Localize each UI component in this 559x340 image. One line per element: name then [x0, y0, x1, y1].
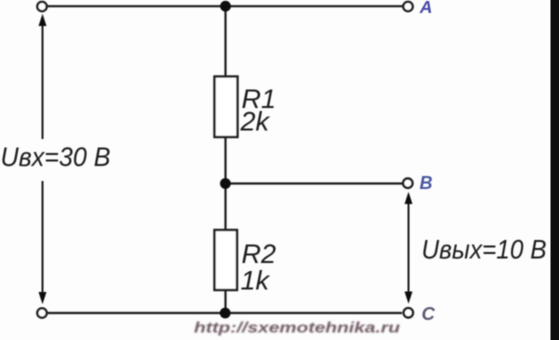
svg-text:Uвых=10 В: Uвых=10 В	[422, 235, 547, 265]
black sidebar right edge	[551, 0, 559, 340]
node label C	[422, 303, 436, 324]
Uin arrow lower (points down to bottom rail)	[39, 181, 47, 304]
junction bottom	[220, 308, 231, 319]
terminal B	[403, 179, 412, 188]
wire vertical middle segment	[224, 136, 226, 231]
svg-text:1k: 1k	[241, 266, 271, 296]
svg-text:A: A	[419, 0, 433, 17]
Uout double arrow between B and C	[405, 192, 413, 304]
svg-text:B: B	[420, 173, 433, 193]
terminal C	[404, 308, 413, 317]
svg-text:2k: 2k	[240, 107, 271, 137]
watermark http://sxemotehnika.ru	[194, 321, 400, 337]
wire top rail A	[46, 5, 403, 7]
svg-text:http://sxemotehnika.ru: http://sxemotehnika.ru	[194, 321, 400, 337]
Uin arrow upper (points up to top rail)	[39, 14, 47, 139]
wire bottom rail C	[46, 312, 402, 314]
wire node B branch	[226, 182, 403, 184]
label Uout = 10 V	[422, 235, 547, 265]
node label B	[420, 173, 433, 193]
terminal bottom-left	[37, 308, 46, 317]
wire vertical top segment	[224, 6, 226, 77]
resistor R1	[215, 77, 277, 138]
wire vertical bottom segment	[224, 289, 226, 313]
node label A	[419, 0, 433, 17]
svg-text:R2: R2	[242, 239, 277, 269]
svg-text:Uвх=30 В: Uвх=30 В	[1, 142, 111, 172]
junction top	[220, 1, 231, 12]
resistor R2	[215, 230, 277, 296]
terminal top-left	[37, 2, 46, 11]
junction node B	[220, 178, 231, 189]
svg-text:C: C	[422, 303, 436, 324]
label Uin = 30 V	[1, 142, 111, 172]
terminal A	[403, 2, 412, 11]
